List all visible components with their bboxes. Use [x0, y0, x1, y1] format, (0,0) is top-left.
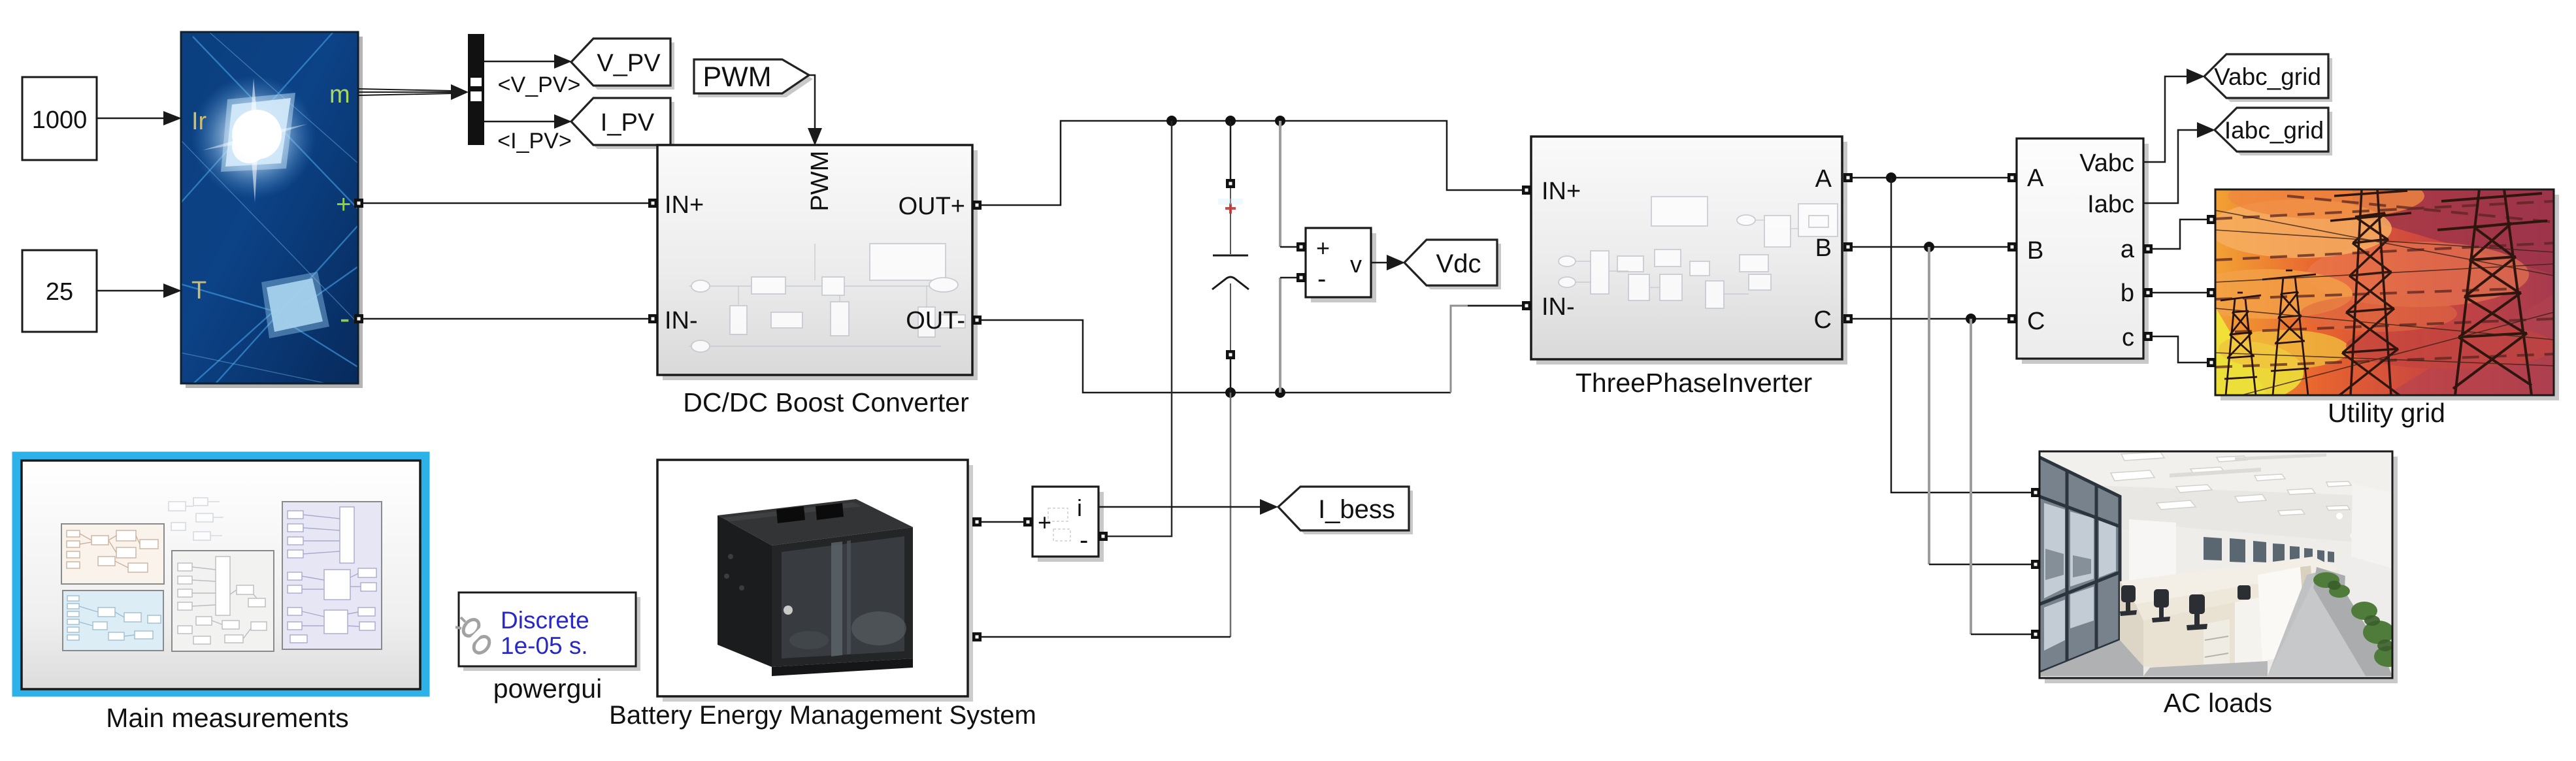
transmission tower silhouettes — [2330, 189, 2411, 395]
powergui broken-link icon — [460, 617, 492, 656]
wire OUT+ to DC bus top — [982, 121, 1523, 205]
DC/DC Boost Converter block — [657, 145, 978, 380]
svg-text:I_PV: I_PV — [601, 109, 655, 137]
svg-text:b: b — [2121, 280, 2134, 307]
svg-text:-: - — [1317, 265, 1326, 293]
svg-text:B: B — [2027, 237, 2043, 265]
svg-text:A: A — [1815, 165, 1832, 193]
cabinet front face / glass door — [772, 527, 913, 667]
svg-text:IN-: IN- — [665, 307, 698, 334]
DC/DC inner circuit sketch — [689, 244, 965, 352]
wire v-meter plus to top bus (gray) — [1279, 121, 1281, 247]
desks cluster — [2120, 557, 2339, 604]
battery cabinet top face — [718, 499, 913, 545]
wire inverter B to measurement B — [1853, 246, 2009, 248]
svg-text:Iabc: Iabc — [2087, 191, 2134, 218]
svg-text:Discrete: Discrete — [501, 607, 589, 634]
wire PWM tag into DC/DC PWM port — [808, 75, 822, 146]
AC loads a port square — [2031, 488, 2040, 497]
svg-text:Vdc: Vdc — [1436, 250, 1481, 278]
svg-text:V_PV: V_PV — [597, 50, 661, 77]
svg-text:T: T — [191, 277, 206, 304]
wire b to utility grid — [2153, 292, 2207, 294]
inverter B port square — [1843, 242, 1853, 251]
junction node bottom bus / v-meter minus — [1275, 387, 1285, 398]
junction node phase A — [1886, 172, 1896, 183]
svg-text:Ir: Ir — [191, 108, 207, 135]
goto tag I_PV — [571, 98, 674, 149]
svg-text:Main measurements: Main measurements — [106, 703, 348, 733]
svg-text:OUT-: OUT- — [906, 307, 965, 334]
goto tag Vdc — [1404, 240, 1501, 289]
svg-text:1e-05 s.: 1e-05 s. — [501, 632, 588, 659]
svg-text:+: + — [1038, 509, 1051, 536]
svg-text:c: c — [2122, 324, 2134, 351]
PV cell bright diamond patch — [267, 278, 323, 332]
wire OUT- to DC bus bottom — [982, 320, 1451, 393]
PV array block — [181, 32, 363, 388]
svg-text:i: i — [1077, 494, 1082, 521]
sub-image 1 (warm tint) — [61, 524, 164, 584]
sub-image 2 (blue tint) — [63, 591, 163, 651]
wire Iabc to Iabc_grid tag — [2143, 122, 2215, 203]
cabinet left face — [718, 515, 772, 667]
wire Vabc to Vabc_grid tag — [2143, 69, 2205, 162]
battery - port square — [972, 632, 982, 641]
bus selector bar — [468, 34, 484, 145]
wire capacitor node down to battery return — [1230, 393, 1232, 637]
svg-text:IN+: IN+ — [1542, 178, 1581, 205]
wire i-meter output to I_bess tag — [1098, 499, 1278, 515]
svg-text:<V_PV>: <V_PV> — [498, 73, 581, 97]
Battery Energy Management System block — [657, 460, 973, 702]
AC loads b port square — [2031, 560, 2040, 569]
faint top-middle sub-diagram — [169, 498, 223, 540]
PV lens flare — [191, 75, 316, 199]
wire PV- to DC/DC IN- — [363, 318, 648, 320]
DC/DC OUT+ port square — [972, 201, 982, 210]
constant block 25 (temperature) — [22, 250, 97, 332]
wire top bus down to i-meter minus — [1103, 121, 1172, 536]
svg-text:C: C — [2027, 308, 2045, 335]
junction node phase C — [1966, 314, 1976, 324]
svg-text:-: - — [1080, 526, 1088, 555]
v-meter + port square — [1296, 242, 1306, 251]
wire phase C down to AC loads (gray) — [1970, 319, 1972, 634]
goto tag Vabc_grid — [2204, 54, 2332, 102]
wire c to utility grid — [2153, 336, 2207, 363]
wire bottom bus up to inverter IN- — [1451, 306, 1523, 393]
svg-text:-: - — [340, 301, 350, 335]
svg-text:PWM: PWM — [806, 151, 834, 212]
DC/DC IN- port square — [648, 314, 657, 323]
drawer unit — [2204, 619, 2230, 676]
battery + port square — [972, 517, 982, 526]
upper middle wall + small dark windows receding — [2129, 523, 2392, 578]
svg-text:Utility grid: Utility grid — [2328, 398, 2445, 428]
DC/DC IN+ port square — [648, 199, 657, 208]
svg-text:AC loads: AC loads — [2164, 688, 2272, 718]
inverter inner circuit sketch — [1559, 197, 1838, 308]
svg-text:m: m — [329, 81, 350, 108]
inverter IN- port square — [1522, 301, 1531, 310]
DC/DC OUT- port square — [972, 316, 982, 325]
svg-text:A: A — [2027, 165, 2044, 192]
svg-text:IN-: IN- — [1542, 293, 1575, 321]
VI meas c port square — [2143, 332, 2153, 341]
wire bus selector to V_PV — [484, 54, 572, 69]
goto tag V_PV — [571, 39, 674, 89]
left window wall — [2039, 457, 2120, 673]
VI meas b port square — [2143, 288, 2153, 297]
Utility grid picture block — [2173, 173, 2559, 404]
ceiling — [2039, 451, 2392, 552]
plants — [2313, 572, 2403, 667]
wire v-meter to Vdc tag — [1371, 255, 1405, 270]
inverter IN+ port square — [1522, 186, 1531, 195]
junction node top bus / capacitor — [1225, 116, 1236, 126]
inverter A port square — [1843, 173, 1853, 182]
wire phase A down to AC loads — [1891, 178, 2031, 493]
wire inverter C to measurement C — [1853, 318, 2009, 320]
svg-text:DC/DC Boost Converter: DC/DC Boost Converter — [683, 387, 968, 417]
goto tag Iabc_grid — [2215, 108, 2332, 155]
wire inverter A to measurement A — [1853, 177, 2009, 179]
svg-text:v: v — [1350, 251, 1362, 278]
svg-text:a: a — [2121, 236, 2135, 263]
wire 25 to T — [97, 283, 182, 298]
stub to v-meter minus port — [1280, 277, 1298, 279]
voltage measurement block Vdc — [1306, 228, 1376, 302]
svg-text:<I_PV>: <I_PV> — [497, 129, 571, 154]
svg-text:Vabc_grid: Vabc_grid — [2214, 63, 2321, 90]
AC loads picture block — [2039, 451, 2403, 683]
wire battery - to capacitor node — [982, 636, 1230, 638]
svg-text:Battery Energy Management Syst: Battery Energy Management System — [609, 701, 1036, 730]
stub to v-meter plus port — [1280, 246, 1298, 248]
junction node top bus / v-meter plus — [1275, 116, 1285, 126]
PV + port square — [354, 199, 363, 208]
capacitor C branch — [1212, 121, 1249, 393]
svg-text:C: C — [1814, 306, 1832, 334]
current measurement block i — [1032, 487, 1104, 562]
i-meter - port square — [1098, 532, 1108, 541]
Main measurements subsystem (selected, blue border) — [16, 456, 425, 692]
from tag PWM — [694, 59, 813, 97]
svg-text:25: 25 — [46, 278, 73, 306]
svg-text:powergui: powergui — [493, 673, 602, 704]
svg-text:Iabc_grid: Iabc_grid — [2224, 117, 2324, 144]
powergui block — [455, 592, 640, 671]
svg-text:+: + — [1316, 235, 1330, 261]
wire a to utility grid — [2153, 219, 2207, 249]
capacitor plates — [1213, 255, 1248, 257]
utility grid b port square — [2207, 288, 2216, 297]
i-meter + port square — [1023, 517, 1032, 526]
svg-text:I_bess: I_bess — [1318, 495, 1395, 524]
inverter C port square — [1843, 314, 1853, 323]
sub-image 4 (lavender) — [282, 502, 382, 649]
junction node top bus / i-meter minus line — [1166, 116, 1177, 126]
v-meter - port square — [1296, 273, 1306, 282]
wire 1000 to Ir — [97, 111, 182, 125]
svg-text:ThreePhaseInverter: ThreePhaseInverter — [1576, 368, 1812, 398]
ThreePhaseInverter block — [1531, 137, 1847, 364]
junction node bottom bus / capacitor-battery — [1225, 387, 1236, 398]
svg-text:Vabc: Vabc — [2079, 150, 2134, 177]
svg-text:OUT+: OUT+ — [899, 193, 965, 220]
goto tag I_bess — [1278, 487, 1413, 534]
svg-text:+: + — [336, 190, 351, 219]
VI meas a port square — [2143, 244, 2153, 253]
AC loads c port square — [2031, 630, 2040, 639]
office chairs — [2120, 585, 2251, 630]
svg-text:B: B — [1815, 235, 1832, 262]
utility grid a port square — [2207, 215, 2216, 224]
svg-text:1000: 1000 — [32, 106, 88, 134]
wire phase B down to AC loads (gray) — [1928, 247, 1930, 564]
svg-text:PWM: PWM — [702, 61, 771, 93]
VI meas B port square — [2007, 242, 2017, 251]
wire PV+ to DC/DC IN+ — [363, 202, 648, 204]
utility grid c port square — [2207, 358, 2216, 367]
wire v-meter minus to bottom bus (gray) — [1279, 278, 1281, 393]
svg-text:IN+: IN+ — [665, 191, 704, 219]
capacitor plus polarity mark — [1225, 203, 1236, 214]
VI meas A port square — [2007, 173, 2017, 182]
junction node phase B — [1924, 242, 1934, 252]
floor — [2039, 640, 2143, 676]
constant block 1000 (irradiance) — [22, 77, 97, 160]
sub-image 3 (gray) — [172, 551, 274, 651]
VI meas C port square — [2007, 314, 2017, 323]
PV - port square — [354, 314, 363, 323]
cabinet top vents — [776, 506, 805, 523]
tall white partition near left — [2129, 519, 2176, 591]
three-phase VI measurement block — [2017, 138, 2149, 364]
bus signal m to bus selector (triple line) — [358, 84, 469, 100]
right white cubicles — [2345, 555, 2392, 653]
wire battery + to i-meter — [982, 521, 1023, 523]
wire bus selector to I_PV — [484, 114, 572, 129]
right corridor — [2268, 570, 2326, 676]
